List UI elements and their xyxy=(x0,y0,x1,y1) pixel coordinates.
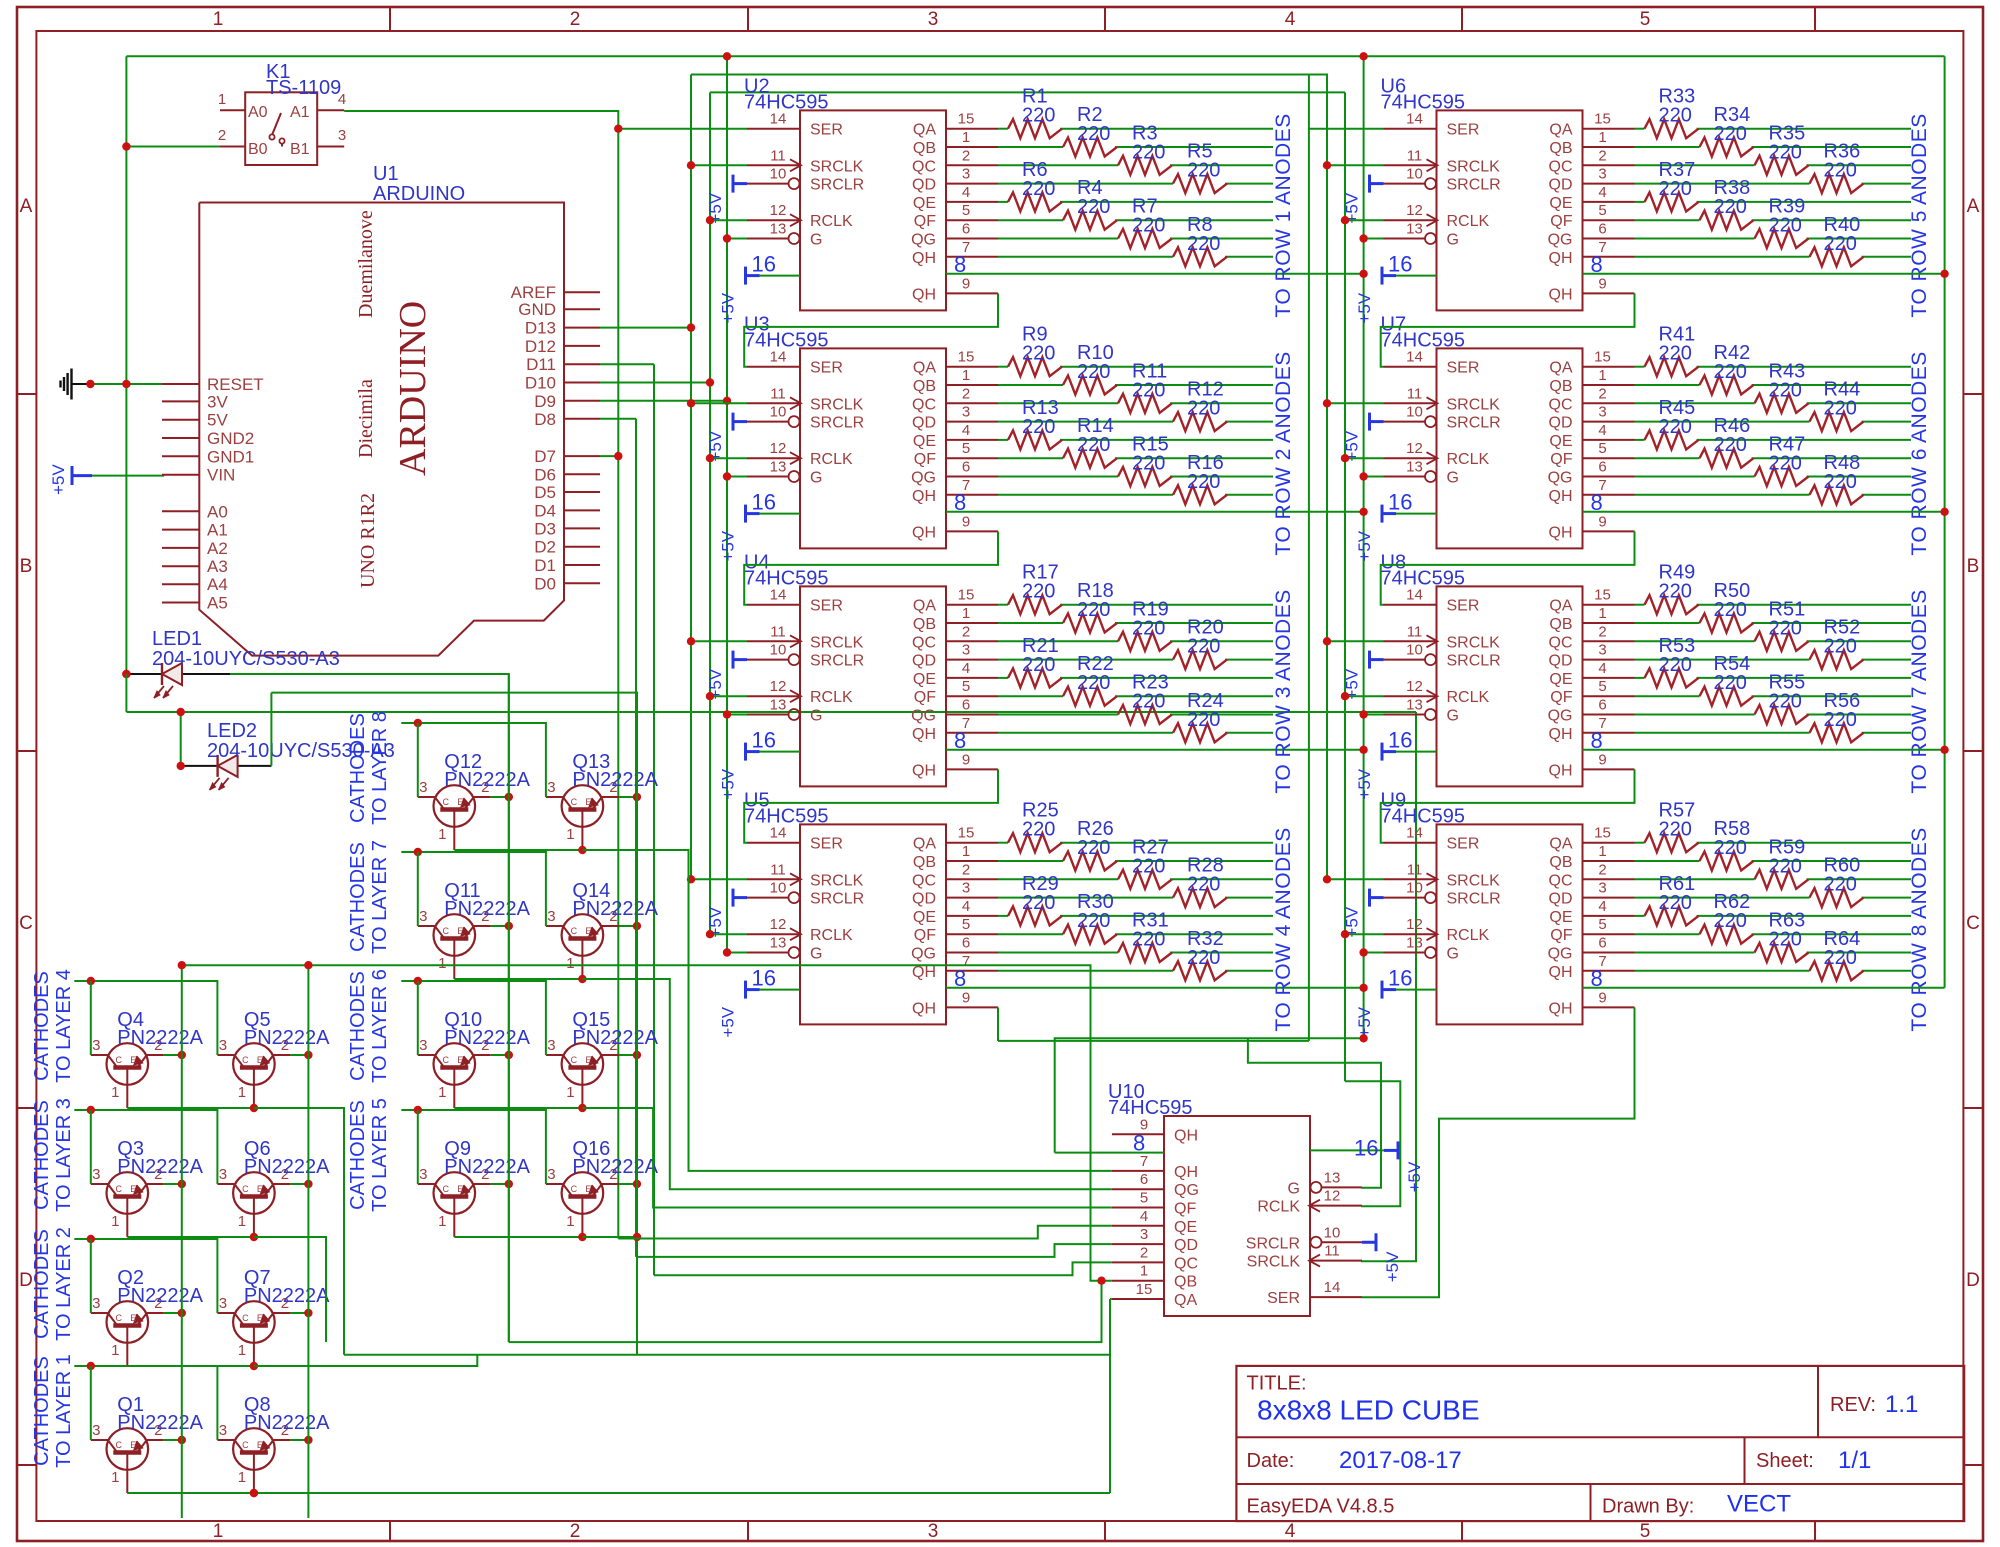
wire SRCLK bus left V691 xyxy=(690,75,692,880)
svg-text:E: E xyxy=(457,926,463,936)
wire V618 to U10 QE staircase xyxy=(618,1226,1112,1239)
U10 pin 4 QE xyxy=(1112,1225,1164,1227)
svg-text:RCLK: RCLK xyxy=(810,213,853,230)
U9 pin 2 QC xyxy=(1583,878,1635,880)
wire U4 output row 4 xyxy=(998,659,1173,661)
svg-text:TO ROW 6 ANODES: TO ROW 6 ANODES xyxy=(1908,351,1931,555)
svg-text:TO ROW 4 ANODES: TO ROW 4 ANODES xyxy=(1272,827,1295,1031)
svg-text:QH: QH xyxy=(912,1000,936,1017)
svg-text:3: 3 xyxy=(1140,1226,1148,1243)
wire H712 long rail xyxy=(126,711,1416,713)
svg-text:E: E xyxy=(457,1055,463,1065)
U7 pin 4 QE xyxy=(1583,439,1635,441)
svg-text:3: 3 xyxy=(547,1037,555,1054)
svg-text:11: 11 xyxy=(1407,623,1423,640)
wire +5V to VIN xyxy=(92,475,164,477)
resistor R42 220 xyxy=(1700,376,1754,395)
wire U3 output row 3 xyxy=(998,402,1118,404)
svg-text:11: 11 xyxy=(1324,1243,1340,1260)
svg-text:1: 1 xyxy=(962,843,970,860)
resistor R33 220 xyxy=(1645,119,1699,138)
U6 pin 14 SER xyxy=(1384,128,1437,130)
wire U9 output row 4 xyxy=(1635,897,1810,899)
svg-text:E: E xyxy=(257,1055,263,1065)
svg-text:3: 3 xyxy=(419,779,427,796)
svg-text:CATHODES: CATHODES xyxy=(347,713,369,823)
svg-text:PN2222A: PN2222A xyxy=(244,1156,330,1178)
svg-text:13: 13 xyxy=(770,935,787,952)
svg-text:9: 9 xyxy=(1598,513,1606,530)
svg-text:3: 3 xyxy=(419,1037,427,1054)
transistor Q9 PN2222A xyxy=(434,1172,476,1214)
svg-text:220: 220 xyxy=(1077,123,1110,145)
svg-text:E: E xyxy=(130,1184,136,1194)
svg-text:220: 220 xyxy=(1022,178,1055,200)
wire D10 to RCLK bus xyxy=(600,382,710,384)
wire U6 SER feed xyxy=(690,74,692,76)
svg-text:220: 220 xyxy=(1132,215,1165,237)
svg-text:QA: QA xyxy=(1549,122,1572,139)
U3 pin 9 QH xyxy=(946,530,998,532)
svg-text:QC: QC xyxy=(912,634,936,651)
U10 pin 5 QF xyxy=(1112,1207,1164,1209)
svg-text:QE: QE xyxy=(913,433,936,450)
U1 pin D12 xyxy=(564,345,600,347)
U10 SRCLR +5V flag xyxy=(1375,1233,1378,1251)
svg-text:13: 13 xyxy=(1406,221,1423,238)
resistor R16 220 xyxy=(1173,485,1227,504)
resistor R36 220 xyxy=(1810,174,1864,193)
svg-text:6: 6 xyxy=(1598,697,1606,714)
wire U7 output row 6 xyxy=(1635,457,1700,459)
svg-text:1: 1 xyxy=(213,9,224,30)
wire U4 QH9 chain to U5 SER xyxy=(744,769,998,842)
wire Q10 base drop xyxy=(417,981,419,1055)
svg-text:4: 4 xyxy=(1140,1208,1148,1225)
U7 pin 12 RCLK xyxy=(1384,457,1437,459)
wire Q6 base entry xyxy=(216,1183,218,1185)
svg-text:QA: QA xyxy=(1549,360,1572,377)
resistor R7 220 xyxy=(1118,229,1172,248)
wire V1416 to U10 SRCLK xyxy=(1361,712,1416,1261)
svg-text:2: 2 xyxy=(962,385,970,402)
wire Q16 base entry xyxy=(545,1183,547,1185)
U1 pin D2 xyxy=(564,546,600,548)
IC U10 74HC595 body xyxy=(1164,1116,1310,1316)
svg-text:2: 2 xyxy=(570,1521,581,1542)
svg-text:74HC595: 74HC595 xyxy=(1108,1097,1193,1119)
svg-text:2: 2 xyxy=(1140,1244,1148,1261)
svg-text:1: 1 xyxy=(962,129,970,146)
svg-text:16: 16 xyxy=(752,252,776,277)
svg-text:QE: QE xyxy=(913,909,936,926)
svg-text:QH: QH xyxy=(1174,1164,1198,1181)
svg-text:15: 15 xyxy=(1594,349,1611,366)
wire D13 to SRCLK bus xyxy=(600,327,691,329)
svg-text:3: 3 xyxy=(338,127,346,144)
svg-text:QF: QF xyxy=(1550,689,1572,706)
svg-text:C: C xyxy=(242,1184,249,1194)
U10 pin 16 VCC with +5V flag xyxy=(1310,1149,1398,1151)
wire base rail layer 4 xyxy=(74,981,217,1055)
svg-text:D11: D11 xyxy=(526,355,556,374)
svg-text:E: E xyxy=(457,797,463,807)
U1 pin GND2 xyxy=(162,437,199,439)
svg-text:CATHODES: CATHODES xyxy=(347,1100,369,1210)
svg-text:RCLK: RCLK xyxy=(1257,1199,1300,1216)
svg-text:QD: QD xyxy=(1549,891,1573,908)
svg-text:5: 5 xyxy=(962,916,970,933)
U4 pin 1 QB xyxy=(946,622,998,624)
U5 pin 10 SRCLR xyxy=(747,897,788,899)
wire Q13 collector to bus xyxy=(619,796,637,798)
U3 SRCLR +5V flag xyxy=(732,413,735,431)
svg-text:9: 9 xyxy=(1598,989,1606,1006)
wire U9 RCLK feed xyxy=(1345,933,1384,935)
svg-text:220: 220 xyxy=(1714,837,1747,859)
svg-text:4: 4 xyxy=(962,660,970,677)
wire U8 output row 2 xyxy=(1635,622,1700,624)
transistor Q5 PN2222A xyxy=(233,1043,275,1085)
U4 pin 12 RCLK xyxy=(747,695,800,697)
svg-text:220: 220 xyxy=(1769,379,1802,401)
U7 pin 10 SRCLR xyxy=(1384,421,1425,423)
U6 pin 13 G xyxy=(1384,238,1425,240)
U9 pin 14 SER xyxy=(1384,842,1437,844)
svg-text:QA: QA xyxy=(913,836,936,853)
svg-text:C: C xyxy=(571,1055,578,1065)
svg-text:4: 4 xyxy=(962,184,970,201)
U1 pin A3 xyxy=(162,565,199,567)
svg-text:PN2222A: PN2222A xyxy=(244,1412,330,1434)
svg-text:3: 3 xyxy=(92,1422,100,1439)
U6 SRCLR +5V flag xyxy=(1368,175,1371,193)
resistor R58 220 xyxy=(1700,852,1754,871)
U4 pin 7 QH xyxy=(946,732,998,734)
svg-text:C: C xyxy=(19,913,33,934)
wire Q7 collector to bus xyxy=(290,1312,308,1314)
svg-text:220: 220 xyxy=(1022,654,1055,676)
U8 pin 5 QF xyxy=(1583,695,1635,697)
wire U9 output row 8 xyxy=(1635,970,1810,972)
svg-text:TO LAYER 2: TO LAYER 2 xyxy=(53,1227,75,1341)
U4 SRCLR +5V flag xyxy=(732,651,735,669)
U3 pin 16 VCC row with +5V flag xyxy=(746,513,801,515)
wire U5 QH9 chain up to U6 column SER vertical xyxy=(997,1007,999,1041)
wire U2 output row 4 xyxy=(998,183,1173,185)
svg-text:220: 220 xyxy=(1022,416,1055,438)
resistor R56 220 xyxy=(1810,723,1864,742)
svg-text:220: 220 xyxy=(1714,599,1747,621)
svg-text:14: 14 xyxy=(1406,111,1423,128)
resistor R26 220 xyxy=(1063,852,1117,871)
transistor Q16 PN2222A xyxy=(562,1172,604,1214)
wire Q8 collector to bus xyxy=(290,1439,308,1441)
switch K1 TS-1109 body xyxy=(245,92,317,165)
svg-text:EasyEDA V4.8.5: EasyEDA V4.8.5 xyxy=(1247,1496,1395,1518)
svg-text:C: C xyxy=(242,1055,249,1065)
U9 pin 9 QH xyxy=(1583,1006,1635,1008)
svg-text:QA: QA xyxy=(1174,1292,1197,1309)
U8 SRCLR +5V flag xyxy=(1368,651,1371,669)
wire U8 output row 4 xyxy=(1635,659,1810,661)
wire U6 output row 3 xyxy=(1635,164,1755,166)
svg-text:14: 14 xyxy=(770,825,787,842)
IC U3 74HC595 body xyxy=(800,348,946,548)
wire Q3 collector to bus xyxy=(164,1183,182,1185)
svg-text:16: 16 xyxy=(752,966,776,991)
U4 pin 14 SER xyxy=(747,604,800,606)
svg-text:15: 15 xyxy=(958,587,975,604)
svg-text:2017-08-17: 2017-08-17 xyxy=(1339,1447,1462,1474)
U5 pin 1 QB xyxy=(946,860,998,862)
wire right collector bus v1r xyxy=(508,674,510,1342)
K1 pin 3 stub xyxy=(317,146,344,148)
U4 pin 2 QC xyxy=(946,640,998,642)
wire base rail layer 5 xyxy=(401,1110,546,1184)
border column ticks top xyxy=(389,7,391,31)
svg-text:C: C xyxy=(116,1184,123,1194)
transistor Q15 PN2222A xyxy=(562,1043,604,1085)
U10 pin 9 QH xyxy=(1112,1133,1164,1135)
svg-text:RCLK: RCLK xyxy=(1447,927,1490,944)
svg-text:TO ROW 2 ANODES: TO ROW 2 ANODES xyxy=(1272,351,1295,555)
svg-text:+5V: +5V xyxy=(1355,292,1374,323)
svg-text:+5V: +5V xyxy=(719,292,738,323)
svg-text:220: 220 xyxy=(1714,123,1747,145)
svg-text:220: 220 xyxy=(1824,233,1857,255)
resistor R11 220 xyxy=(1118,394,1172,413)
U6 pin 5 QF xyxy=(1583,219,1635,221)
U9 pin 15 QA xyxy=(1583,842,1635,844)
svg-text:+5V: +5V xyxy=(719,768,738,799)
svg-text:10: 10 xyxy=(1406,642,1423,659)
svg-text:SER: SER xyxy=(810,836,843,853)
title block Sheet divider xyxy=(1744,1437,1746,1484)
wire U6 output row 6 xyxy=(1635,219,1700,221)
svg-text:B1: B1 xyxy=(290,141,310,158)
svg-text:QB: QB xyxy=(1549,378,1572,395)
svg-text:220: 220 xyxy=(1077,196,1110,218)
wire U9 output row 5 xyxy=(1635,915,1645,917)
resistor R38 220 xyxy=(1700,211,1754,230)
resistor R54 220 xyxy=(1700,687,1754,706)
svg-text:SRCLR: SRCLR xyxy=(810,891,864,908)
svg-text:11: 11 xyxy=(770,385,786,402)
U7 pin 6 QG xyxy=(1583,476,1635,478)
svg-text:1: 1 xyxy=(1140,1263,1148,1280)
svg-text:2: 2 xyxy=(1598,147,1606,164)
U2 pin 5 QF xyxy=(946,219,998,221)
svg-text:QG: QG xyxy=(1548,470,1573,487)
svg-text:220: 220 xyxy=(1187,233,1220,255)
svg-text:RCLK: RCLK xyxy=(810,451,853,468)
wire Q13 base entry xyxy=(545,796,547,798)
svg-text:QB: QB xyxy=(1549,140,1572,157)
svg-text:TO ROW 5 ANODES: TO ROW 5 ANODES xyxy=(1908,113,1931,317)
title block outline xyxy=(1236,1366,1964,1521)
svg-text:15: 15 xyxy=(1594,111,1611,128)
wire D11 to V654 xyxy=(600,363,654,365)
svg-text:5: 5 xyxy=(962,678,970,695)
svg-text:1.1: 1.1 xyxy=(1885,1391,1918,1418)
svg-text:QG: QG xyxy=(1548,946,1573,963)
svg-text:220: 220 xyxy=(1187,471,1220,493)
transistor Q10 PN2222A xyxy=(434,1043,476,1085)
svg-text:12: 12 xyxy=(1406,916,1423,933)
wire top bus H2 D13 to right SRCLK bus xyxy=(691,75,1327,93)
svg-text:VECT: VECT xyxy=(1727,1491,1791,1518)
U4 pin 15 QA xyxy=(946,604,998,606)
svg-text:SER: SER xyxy=(810,122,843,139)
U7 pin 3 QD xyxy=(1583,421,1635,423)
U5 pin 7 QH xyxy=(946,970,998,972)
wire right edge bus V1945 xyxy=(1944,56,1946,988)
svg-text:6: 6 xyxy=(962,935,970,952)
wire U7 output row 7 xyxy=(1635,476,1755,478)
U1 pin D10 xyxy=(564,382,600,384)
svg-text:QE: QE xyxy=(1174,1219,1197,1236)
svg-text:220: 220 xyxy=(1187,636,1220,658)
wire U9 SRCLK feed xyxy=(1327,878,1384,880)
svg-text:2: 2 xyxy=(570,9,581,30)
svg-text:QH: QH xyxy=(912,488,936,505)
svg-text:12: 12 xyxy=(1406,678,1423,695)
svg-text:GND1: GND1 xyxy=(207,447,254,466)
wire G bus left V727 xyxy=(726,56,728,953)
resistor R4 220 xyxy=(1063,211,1117,230)
svg-text:3: 3 xyxy=(547,1166,555,1183)
wire U4 output row 3 xyxy=(998,640,1118,642)
svg-text:QB: QB xyxy=(1174,1274,1197,1291)
svg-text:220: 220 xyxy=(1132,855,1165,877)
svg-text:220: 220 xyxy=(1132,379,1165,401)
svg-text:SRCLR: SRCLR xyxy=(810,653,864,670)
svg-text:+5V: +5V xyxy=(719,530,738,561)
svg-text:220: 220 xyxy=(1132,929,1165,951)
svg-text:B: B xyxy=(20,556,33,577)
resistor R13 220 xyxy=(1008,430,1062,449)
svg-text:1: 1 xyxy=(566,1084,574,1101)
U3 pin 7 QH xyxy=(946,494,998,496)
wire U9 G feed xyxy=(1364,952,1384,954)
wire U3 output row 1 xyxy=(998,366,1008,368)
wire emitter rail Q2 Q7 extension xyxy=(254,1355,477,1366)
svg-text:1: 1 xyxy=(111,1213,119,1230)
U2 pin 16 VCC row with +5V flag xyxy=(746,275,801,277)
wire U3 G feed xyxy=(727,476,747,478)
wire U2 QH9 chain to U3 SER xyxy=(744,293,998,366)
wire U5 output row 5 xyxy=(998,915,1008,917)
svg-text:9: 9 xyxy=(962,751,970,768)
svg-text:B: B xyxy=(1967,556,1980,577)
svg-text:LED1: LED1 xyxy=(152,628,202,650)
svg-text:220: 220 xyxy=(1187,160,1220,182)
svg-text:4: 4 xyxy=(1285,9,1296,30)
svg-text:ARDUINO: ARDUINO xyxy=(373,183,465,205)
svg-text:C: C xyxy=(443,1184,450,1194)
transistor Q4 PN2222A xyxy=(107,1043,149,1085)
border row ticks right xyxy=(1963,393,1983,395)
U9 pin 11 SRCLK xyxy=(1384,878,1437,880)
wire LED2 right vertical to H692 xyxy=(270,693,272,766)
transistor Q14 PN2222A xyxy=(562,914,604,956)
svg-text:QD: QD xyxy=(1549,177,1573,194)
svg-text:QH: QH xyxy=(912,762,936,779)
svg-text:QF: QF xyxy=(1550,213,1572,230)
svg-text:5V: 5V xyxy=(207,411,228,430)
wire U9 output row 6 xyxy=(1635,933,1700,935)
wire Q4 base drop xyxy=(90,981,92,1055)
resistor R55 220 xyxy=(1755,705,1809,724)
wire Q15 collector to bus xyxy=(619,1054,637,1056)
wire Q9 collector to bus xyxy=(491,1183,509,1185)
svg-text:12: 12 xyxy=(770,916,787,933)
svg-text:VIN: VIN xyxy=(207,466,235,485)
svg-text:QH: QH xyxy=(1549,762,1573,779)
svg-text:RCLK: RCLK xyxy=(1447,213,1490,230)
U10 pin 6 QG xyxy=(1112,1188,1164,1190)
svg-text:15: 15 xyxy=(1136,1281,1153,1298)
svg-text:C: C xyxy=(443,797,450,807)
resistor R15 220 xyxy=(1118,467,1172,486)
svg-text:REV:: REV: xyxy=(1830,1394,1876,1416)
svg-text:QC: QC xyxy=(1549,158,1573,175)
svg-text:3: 3 xyxy=(547,779,555,796)
svg-text:QH: QH xyxy=(912,286,936,303)
resistor R53 220 xyxy=(1645,668,1699,687)
svg-text:C: C xyxy=(571,1184,578,1194)
resistor R52 220 xyxy=(1810,650,1864,669)
svg-text:C: C xyxy=(116,1055,123,1065)
svg-text:220: 220 xyxy=(1022,105,1055,127)
U4 pin 5 QF xyxy=(946,695,998,697)
svg-text:2: 2 xyxy=(962,147,970,164)
U8 pin 2 QC xyxy=(1583,640,1635,642)
wire U9 output row 1 xyxy=(1635,842,1645,844)
resistor R57 220 xyxy=(1645,833,1699,852)
svg-text:C: C xyxy=(443,926,450,936)
svg-text:QG: QG xyxy=(911,946,936,963)
wire QA riser from bottom rail xyxy=(1109,1299,1111,1493)
resistor R3 220 xyxy=(1118,156,1172,175)
wire emitter rail layer 5 xyxy=(454,1236,582,1238)
svg-text:3: 3 xyxy=(962,880,970,897)
svg-text:QB: QB xyxy=(913,616,936,633)
IC U4 74HC595 body xyxy=(800,586,946,786)
svg-text:D8: D8 xyxy=(534,410,556,429)
wire Q6 collector to bus xyxy=(290,1183,308,1185)
svg-text:G: G xyxy=(1447,708,1459,725)
resistor R10 220 xyxy=(1063,376,1117,395)
transistor Q2 PN2222A xyxy=(107,1301,149,1343)
wire bottom ground rail xyxy=(127,1492,1110,1494)
svg-text:TO LAYER 3: TO LAYER 3 xyxy=(53,1098,75,1212)
svg-text:QH: QH xyxy=(1549,250,1573,267)
resistor R30 220 xyxy=(1063,925,1117,944)
wire U10 pin8 corner feed xyxy=(1055,1038,1364,1152)
resistor R51 220 xyxy=(1755,632,1809,651)
svg-text:QB: QB xyxy=(913,378,936,395)
svg-text:PN2222A: PN2222A xyxy=(444,1156,530,1178)
svg-text:SRCLR: SRCLR xyxy=(1246,1235,1300,1252)
resistor R44 220 xyxy=(1810,412,1864,431)
svg-text:QF: QF xyxy=(1550,451,1572,468)
svg-text:TO LAYER 6: TO LAYER 6 xyxy=(369,969,391,1083)
svg-text:220: 220 xyxy=(1187,398,1220,420)
transistor Q6 PN2222A xyxy=(233,1172,275,1214)
svg-text:QA: QA xyxy=(913,122,936,139)
